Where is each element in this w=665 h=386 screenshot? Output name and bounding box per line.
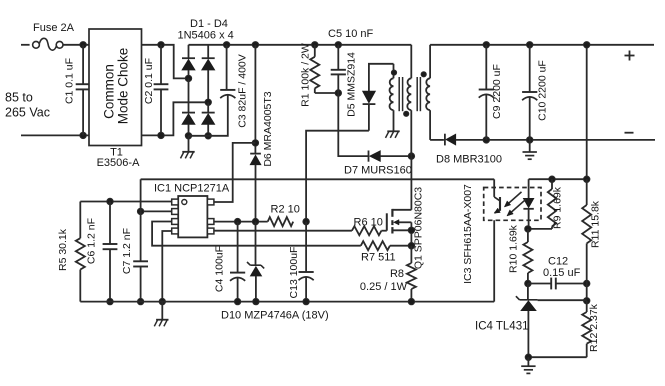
label IC3 SFH615AA-X007 [462, 184, 474, 284]
svg-text:R1 100k / 2W: R1 100k / 2W [299, 43, 311, 107]
plus terminal [625, 51, 635, 61]
opto light arrow 2 [507, 199, 526, 216]
capacitor C6 [103, 202, 118, 302]
wire FB long run to optocoupler [141, 178, 495, 180]
svg-text:85 to: 85 to [5, 91, 33, 105]
node C2 top [158, 42, 164, 48]
node C7 bottom [137, 298, 143, 304]
ground aux winding [386, 131, 400, 138]
svg-text:R7 511: R7 511 [361, 252, 396, 264]
svg-text:C1 0.1 uF: C1 0.1 uF [64, 58, 76, 104]
capacitor C4 [230, 222, 245, 302]
svg-text:D1 - D4: D1 - D4 [190, 18, 228, 30]
diode D6 [250, 154, 261, 222]
node R11 top [584, 176, 590, 182]
label Mode Choke [116, 48, 131, 125]
diode D4 bottom right [202, 113, 215, 136]
svg-text:C12: C12 [548, 256, 568, 268]
label R5 30.1k [57, 228, 69, 271]
svg-text:R2 10: R2 10 [271, 204, 300, 216]
capacitor C1 [76, 45, 91, 136]
label C13 100uF [288, 247, 300, 299]
node bridge AC1 [185, 75, 191, 81]
wire D5 to VCC node [306, 131, 369, 222]
wire TL431 ref to divider [538, 299, 587, 301]
node Q1 source [408, 243, 414, 249]
node TL431 anode [525, 354, 531, 360]
node C4 top [234, 218, 240, 224]
resistor R8 [407, 246, 416, 302]
resistor R7 [361, 241, 390, 250]
ground bridge [181, 136, 195, 159]
svg-text:D8 MBR3100: D8 MBR3100 [436, 154, 502, 166]
resistor R10 [523, 229, 532, 284]
svg-text:0.15 uF: 0.15 uF [543, 267, 581, 279]
svg-text:Fuse 2A: Fuse 2A [33, 22, 75, 34]
label IC1 NCP1271A [154, 183, 230, 195]
opto LED [523, 179, 533, 229]
transistor Q1 SPP06N80C3 [387, 209, 412, 246]
node R8 bottom [408, 298, 414, 304]
node opto LED cathode / R10 top [525, 226, 531, 232]
capacitor C12 [528, 278, 587, 290]
node VCC right [303, 218, 309, 224]
diode D3 bottom left [182, 113, 195, 136]
resistor R9 [528, 179, 556, 229]
transformer primary winding [407, 45, 411, 210]
svg-text:0.25 / 1W: 0.25 / 1W [360, 281, 408, 293]
svg-text:C5 10 nF: C5 10 nF [328, 28, 374, 40]
wire R6 to Q1 gate [381, 230, 386, 232]
label R6 10 [354, 217, 383, 229]
svg-text:D5 MMSZ914: D5 MMSZ914 [346, 52, 358, 117]
label D6 MRA4005T3 [262, 91, 274, 166]
node C9 top [483, 42, 489, 48]
node C2 bottom [158, 132, 164, 138]
resistor R1 [310, 45, 319, 93]
aux winding phase dot [391, 70, 396, 75]
capacitor C5 [331, 45, 346, 93]
node C10 top [527, 42, 533, 48]
label 85 to [5, 91, 33, 105]
wire TL431 anode / R12 bottom [528, 356, 586, 358]
label D7 MURS160 [344, 165, 412, 177]
node drain / D7 [408, 153, 414, 159]
node C3 top on + rail [223, 42, 229, 48]
diode D1 top left [182, 45, 195, 79]
label E3506-A [97, 157, 140, 169]
node HV tap [252, 140, 258, 146]
label D8 MBR3100 [436, 154, 502, 166]
label D5 MMSZ914 [346, 52, 358, 117]
minus terminal [625, 132, 634, 134]
svg-text:R5 30.1k: R5 30.1k [57, 228, 69, 271]
label Common [102, 64, 117, 119]
node C5 top on + rail [335, 42, 341, 48]
ground output [523, 140, 537, 159]
svg-text:C6 1.2 nF: C6 1.2 nF [86, 218, 98, 264]
wire output - rail [486, 139, 655, 141]
wire ground rail to opto emitter [493, 220, 495, 301]
label IC4 TL431 [475, 321, 529, 333]
capacitor C13 [299, 222, 314, 302]
node R10 bottom / C12 left [525, 280, 531, 286]
label C9 2200 uF [491, 64, 503, 119]
wire output + rail [430, 44, 654, 46]
capacitor C7 [133, 211, 148, 301]
label R1 100k / 2W [299, 43, 311, 107]
node C12 right [584, 280, 590, 286]
wire aux top to D5 [369, 64, 394, 91]
wire FB riser [140, 179, 142, 211]
diode D7 MURS160 [369, 151, 412, 162]
label 0.25 / 1W [360, 281, 408, 293]
node C4 bottom [234, 298, 240, 304]
svg-text:265 Vac: 265 Vac [5, 106, 50, 120]
label R11 15.8k [590, 200, 602, 248]
svg-text:C7 1.2 nF: C7 1.2 nF [121, 228, 133, 274]
svg-text:E3506-A: E3506-A [97, 157, 140, 169]
wire + rail to D6 [254, 45, 256, 154]
node + rail feedback tap [584, 42, 590, 48]
svg-text:R12 2.37k: R12 2.37k [588, 303, 600, 352]
opto phototransistor [494, 179, 500, 213]
svg-text:1N5406 x 4: 1N5406 x 4 [178, 30, 234, 42]
svg-text:C13 100uF: C13 100uF [288, 247, 300, 299]
wire fuse to node C1 top [63, 44, 89, 46]
svg-text:C10 2200 uF: C10 2200 uF [536, 60, 548, 121]
node R11 bottom / R12 top [584, 298, 590, 304]
zener D10 MZP4746A [247, 222, 264, 302]
capacitor C3 [220, 45, 235, 98]
secondary winding phase dot [421, 72, 426, 77]
wire AC1 to D3 [188, 78, 190, 112]
label C4 100uF [214, 246, 226, 292]
wire FB pin2 [141, 210, 172, 212]
label C2 0.1 uF [143, 58, 155, 104]
resistor R5 [76, 202, 85, 302]
transformer secondary winding [426, 45, 430, 140]
svg-text:IC1 NCP1271A: IC1 NCP1271A [154, 183, 230, 195]
op-amp IC1 NCP1271A body [172, 196, 214, 237]
svg-text:IC4 TL431: IC4 TL431 [475, 321, 529, 333]
label 265 Vac [5, 106, 50, 120]
svg-text:IC3 SFH615AA-X007: IC3 SFH615AA-X007 [462, 184, 474, 284]
wire GND pin4 [162, 231, 171, 302]
svg-text:R11 15.8k: R11 15.8k [590, 200, 602, 248]
node Q1 source tap [408, 227, 414, 233]
opto light arrow 1 [504, 192, 521, 207]
node C10 bottom [527, 137, 533, 143]
resistor R6 [352, 226, 382, 235]
svg-text:R9 1.69k: R9 1.69k [552, 186, 564, 229]
fuse 2A F1 [33, 38, 63, 50]
diode D8 MBR3100 [430, 134, 486, 146]
svg-text:R8: R8 [390, 268, 404, 280]
label D10 MZP4746A (18V) [221, 310, 329, 322]
wire primary ground rail [80, 301, 494, 303]
transformer T1 common mode choke box [89, 29, 142, 146]
optocoupler IC3 dashed box [484, 188, 541, 221]
node IC1 ground [159, 298, 165, 304]
label R12 2.37k [588, 303, 600, 352]
label R7 511 [361, 252, 396, 264]
wire AC line bottom [21, 134, 89, 136]
wire AC2 to D4 [207, 102, 209, 112]
svg-text:C3 82uF / 400V: C3 82uF / 400V [237, 54, 249, 128]
label C5 10 nF [328, 28, 374, 40]
node bridge AC2 [205, 99, 211, 105]
capacitor C2 [154, 45, 169, 136]
svg-text:D10 MZP4746A (18V): D10 MZP4746A (18V) [221, 310, 329, 322]
node R9 top [549, 176, 555, 182]
wire + rail to feedback divider [586, 45, 588, 179]
label R8 [390, 268, 404, 280]
node C1 bottom [80, 132, 86, 138]
resistor R11 [582, 179, 591, 301]
node D6 bottom / D10 top [252, 218, 258, 224]
node bridge minus right [205, 133, 211, 139]
label R2 10 [271, 204, 300, 216]
node C9 bottom [483, 137, 489, 143]
wire R1 bottom to clamp node [315, 92, 339, 94]
label C1 0.1 uF [64, 58, 76, 104]
svg-text:R6 10: R6 10 [354, 217, 383, 229]
wire VCC pin6 [214, 221, 268, 223]
wire choke out bottom to bridge AC2 [142, 102, 207, 135]
svg-text:C2 0.1 uF: C2 0.1 uF [143, 58, 155, 104]
wire clamp node down to D7 [338, 93, 368, 156]
shunt regulator IC4 TL431 [516, 284, 538, 358]
label R10 1.69k [508, 224, 520, 273]
capacitor C10 [522, 45, 537, 140]
svg-text:D6 MRA4005T3: D6 MRA4005T3 [262, 91, 274, 166]
svg-text:D7 MURS160: D7 MURS160 [344, 165, 412, 177]
resistor R12 [582, 301, 591, 357]
primary winding phase dot [404, 111, 409, 116]
svg-text:Common: Common [102, 64, 117, 119]
capacitor C9 [479, 45, 494, 140]
node D6 top on + rail [252, 42, 258, 48]
node R1 top on + rail [312, 42, 318, 48]
node D10 bottom [253, 298, 259, 304]
node C13 bottom [303, 298, 309, 304]
label 1N5406 x 4 [178, 30, 234, 42]
wire rectified + rail [189, 44, 412, 46]
label Q1 SPP06N80C3 [413, 187, 425, 269]
wire R7 to Q1 source [390, 245, 412, 247]
wire AC line top from input to fuse [21, 44, 30, 46]
transformer aux winding [390, 64, 394, 131]
node C6 bottom [107, 298, 113, 304]
wire HV tap to IC1 pin8 [214, 143, 256, 202]
node FB / C7 [137, 208, 143, 214]
wire bridge minus to C3 bottom [189, 95, 228, 136]
label C6 1.2 nF [86, 218, 98, 264]
ground primary [154, 302, 168, 327]
svg-text:Q1 SPP06N80C3: Q1 SPP06N80C3 [413, 187, 425, 269]
node C5 bottom [335, 90, 341, 96]
wire DRV pin5 to R6 [214, 230, 352, 232]
svg-text:R10 1.69k: R10 1.69k [508, 224, 520, 273]
node C6 top [107, 198, 113, 204]
transformer core [399, 77, 420, 111]
label 0.15 uF [543, 267, 581, 279]
diode D2 top right [202, 45, 215, 103]
wire timing node to IC1 pin1 [80, 201, 171, 203]
label R9 1.69k [552, 186, 564, 229]
label Fuse 2A [33, 22, 75, 34]
label C7 1.2 nF [121, 228, 133, 274]
label T1 [110, 147, 123, 159]
resistor R2 [268, 217, 294, 226]
label C12 [548, 256, 568, 268]
label D1 - D4 [190, 18, 228, 30]
label C10 2200 uF [536, 60, 548, 121]
label C3 82uF / 400V [237, 54, 249, 128]
node C1 top [80, 42, 86, 48]
wire choke out top to bridge AC1 [142, 45, 187, 79]
wire CS pin3 to R7 [152, 222, 361, 246]
wire feedback top [529, 178, 587, 180]
diode D5 MMSZ914 [363, 91, 376, 131]
node bridge minus left [185, 133, 191, 139]
svg-text:C4 100uF: C4 100uF [214, 246, 226, 292]
svg-text:Mode Choke: Mode Choke [116, 48, 131, 125]
ground feedback [521, 357, 535, 373]
svg-text:C9 2200 uF: C9 2200 uF [491, 64, 503, 119]
